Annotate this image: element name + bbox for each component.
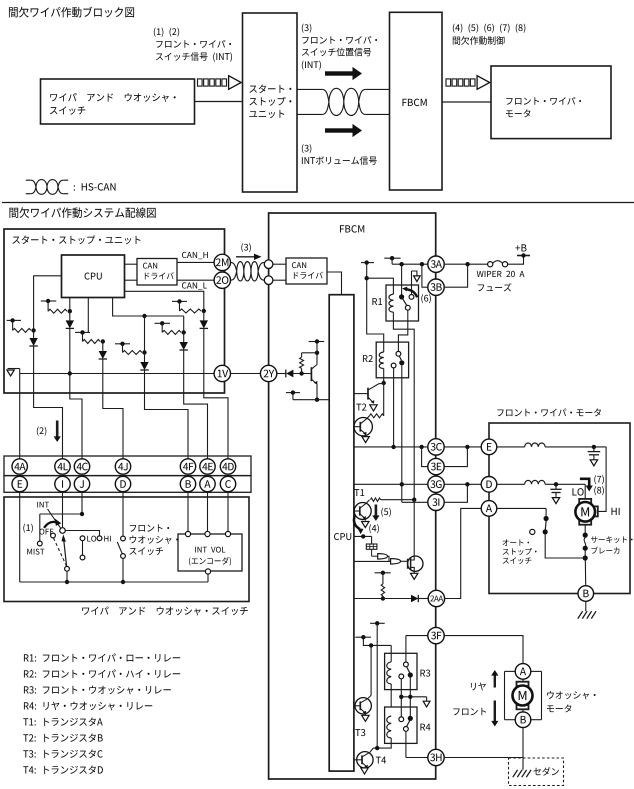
- label (2) with bold arrow: [54, 421, 61, 443]
- logic gate 1: [372, 549, 388, 559]
- wire rail to R2 coil: [367, 278, 384, 352]
- cell1 resistor: [13, 328, 31, 332]
- FBCM box: [269, 213, 436, 779]
- label INT with indicator line: [48, 509, 61, 528]
- wire FBCM to motor: [442, 101, 491, 103]
- wire 3I tie external: [444, 484, 467, 502]
- dashed signal arrow 2: [446, 76, 490, 90]
- wire fuse to +B: [508, 256, 524, 265]
- wire C column to INT VOL: [227, 492, 229, 532]
- signal label (3) INT volume signal: [0, 0, 1, 1]
- net label CAN_L: [0, 0, 1, 1]
- wire R4 common to 3H: [405, 731, 407, 757]
- cell6 stub: [155, 321, 171, 332]
- caption wiper and washer switch: [0, 0, 1, 1]
- connector D (switch side): [115, 476, 130, 491]
- wire LO feed: [584, 484, 586, 499]
- connector 3F: [428, 627, 444, 643]
- cell5 stub: [172, 299, 187, 311]
- connector 3E: [428, 458, 444, 474]
- label front with down arrow: [491, 701, 498, 727]
- label (1) with bold arc arrow: [44, 518, 61, 528]
- CAN pin circle H: [264, 260, 273, 269]
- wire CPU left pin to cell1: [34, 276, 62, 331]
- node 2Y input: [299, 371, 303, 375]
- pull-up resistor 2Y input: [300, 353, 304, 374]
- wire arm bottom to bus: [65, 571, 69, 584]
- wire R3 contacts to bus: [401, 678, 410, 718]
- cell6 node: [182, 316, 186, 335]
- connector 2O: [214, 272, 230, 288]
- cell3 node: [101, 339, 105, 343]
- power stub rail 2: [384, 256, 400, 264]
- T1 bold arc (4): [354, 516, 363, 535]
- resistor 2A line: [381, 584, 385, 601]
- connector J (switch side): [74, 476, 89, 491]
- transistor 2Y input: [311, 353, 319, 402]
- transistor Tx driver: [354, 418, 373, 437]
- wire washer switch to bus: [121, 558, 125, 584]
- wire 3C line: [354, 445, 428, 449]
- wire LO to lower contact: [82, 541, 84, 556]
- start-stop unit box (block): [243, 13, 298, 192]
- wire 3A feed line: [392, 262, 428, 266]
- CAN pin circle L: [264, 276, 273, 285]
- front wiper motor box (block): [491, 66, 611, 139]
- switch arm with arrowhead: [62, 534, 67, 566]
- connector A (switch side): [200, 476, 215, 491]
- HS-CAN twisted pair unit-FBCM: [297, 88, 390, 115]
- relay R1 coil: [389, 294, 393, 321]
- relay R4 coil: [387, 716, 391, 738]
- wire ground bus to connector 4A: [19, 374, 21, 459]
- label front wiper motor: [0, 0, 1, 1]
- power stub rail 1: [361, 260, 374, 280]
- cell5 node: [202, 309, 206, 313]
- wire CAN driver to CPU: [327, 272, 342, 295]
- wire E column to common bus: [19, 492, 21, 582]
- wire auto-stop to breaker junction: [545, 534, 583, 558]
- relay R2 coil: [379, 352, 383, 383]
- transistor T3: [354, 695, 372, 714]
- cell4 stub: [115, 342, 130, 353]
- title wiring diagram: [0, 0, 1, 1]
- node R2 coil low: [382, 381, 386, 385]
- connector E (switch side): [12, 476, 27, 491]
- FBCM box (block): [390, 12, 443, 190]
- connector 4F: [180, 459, 195, 474]
- connector I (switch side): [55, 476, 70, 491]
- contact LO: [80, 536, 85, 541]
- dashed signal arrow 1: [198, 76, 242, 90]
- cell4 node: [142, 316, 146, 355]
- relay R3 coil: [387, 662, 391, 707]
- ground bus wire to 1V: [20, 373, 214, 375]
- resistor T2-Tx: [366, 383, 384, 419]
- input diode at 2Y: [277, 370, 312, 378]
- switch common bus: [20, 581, 208, 583]
- wire gate1 to gate2: [387, 556, 390, 561]
- label washer motor: [0, 0, 1, 1]
- connector A (washer): [515, 664, 531, 680]
- T2 emitter ground marker: [370, 405, 377, 411]
- cell1 pull-up stub: [7, 318, 21, 330]
- connector 1V: [214, 365, 230, 381]
- relay R1 contacts: [399, 294, 414, 310]
- wire A column to INT VOL: [207, 492, 209, 532]
- connector 4L: [55, 459, 70, 474]
- label (3) with arrow: [236, 254, 262, 260]
- motor M (wiper): [575, 499, 597, 525]
- wire cell2 to connector 4C: [68, 328, 82, 458]
- connector 4C: [74, 459, 89, 474]
- wire R1 NO down to R2 common: [398, 310, 407, 351]
- wire R1 coil to node jog: [393, 321, 414, 500]
- wire to T3 collector: [370, 645, 372, 695]
- MOSFET driver: [401, 500, 423, 572]
- relay R4 box: [385, 707, 417, 743]
- connector B (switch side): [180, 476, 195, 491]
- cell6 diode: [180, 332, 188, 350]
- connector 4E: [200, 459, 215, 474]
- wire 1V to 2Y: [231, 373, 261, 375]
- cell3 stub: [75, 330, 90, 341]
- contact arm bottom: [65, 566, 70, 571]
- HS-CAN legend symbol: [26, 180, 68, 195]
- wire 3B tie: [422, 264, 428, 287]
- wire switch to unit: [195, 101, 243, 103]
- connector D (motor): [481, 477, 497, 493]
- diode 2A line: [411, 595, 418, 602]
- cell1 node: [31, 328, 35, 332]
- connector 3H: [428, 749, 444, 765]
- wire 3A to fuse: [444, 262, 487, 266]
- cell5 resistor: [180, 309, 202, 313]
- T3 emitter ground marker: [362, 713, 369, 721]
- +B terminal: [517, 253, 530, 257]
- connector 3C: [428, 439, 444, 455]
- wire 3F to washer A: [444, 636, 523, 664]
- wire R2 NC to 3C line: [393, 368, 395, 447]
- front wiper motor box: [489, 423, 630, 594]
- wire CPU bottom pin to cell2: [69, 298, 71, 312]
- connector C (switch side): [220, 476, 235, 491]
- label front washer switch: [0, 0, 1, 1]
- wire cell5 to connector 4D: [204, 328, 228, 458]
- pull-up stub 2Y: [302, 339, 325, 355]
- wire 3E tie external: [444, 447, 467, 467]
- wire cell4 to connector 4F: [145, 370, 189, 459]
- connector A (motor): [481, 501, 497, 517]
- solid arrow bottom: [325, 124, 362, 137]
- bold arrow (7)(8): [580, 479, 593, 492]
- INT VOL pin C: [225, 531, 230, 536]
- INT VOL pin B: [185, 531, 190, 536]
- wire rail to R1 coil: [367, 278, 394, 294]
- sedan ground box: [509, 758, 564, 786]
- wire J column to INT bar: [81, 492, 83, 514]
- connector 2AA: [428, 590, 444, 606]
- wire CAN driver to 2M 2O: [177, 262, 214, 280]
- wire D column to washer switch: [122, 492, 124, 537]
- stub at CPU 2Y input: [286, 390, 300, 399]
- motor M (washer): [513, 679, 533, 712]
- INT VOL bottom pin: [205, 569, 210, 574]
- wire to CPU left pin: [293, 399, 329, 401]
- connector 3A: [428, 256, 444, 272]
- cell2 diode: [66, 311, 74, 328]
- wire CPU bottom pin to cell3: [87, 298, 89, 333]
- Tx emitter ground marker: [362, 437, 369, 443]
- wire 3H external: [444, 757, 523, 759]
- wire 3G to D: [444, 482, 481, 486]
- wire R4 coil to T4: [373, 738, 391, 750]
- relay R3 box: [385, 653, 417, 689]
- connector E (motor): [481, 439, 497, 455]
- wire 3B loop to 3A line: [444, 264, 467, 287]
- connector B (motor): [578, 586, 594, 602]
- auto-stop switch feed: [497, 508, 546, 516]
- dashed arm OFF position: [54, 538, 67, 566]
- wire HI feed: [598, 447, 606, 512]
- wire to R1 common: [401, 264, 403, 297]
- wire breaker to B: [584, 558, 586, 586]
- cell2 pull-up stub: [41, 299, 57, 311]
- transistor T4: [354, 748, 373, 768]
- washer motor bracket: [505, 671, 542, 719]
- signal label (3) front wiper switch position signal INT: [0, 0, 1, 1]
- connector strip frame: [4, 456, 251, 492]
- capacitor to ground E line: [588, 447, 601, 466]
- connector 4A: [12, 459, 27, 474]
- contact OFF: [51, 533, 56, 538]
- cell6 resistor: [162, 330, 181, 334]
- connector 4D: [220, 459, 235, 474]
- switch pivot contact: [60, 528, 66, 534]
- T1 emitter ground marker (4): [362, 522, 369, 528]
- connector 4J: [115, 459, 130, 474]
- contact MIST: [37, 541, 42, 546]
- capacitor to ground D line: [550, 484, 561, 503]
- wiper and washer switch box (wiring): [4, 497, 249, 602]
- connector 3G: [428, 476, 444, 492]
- wire cell3 to connector 4J: [103, 359, 123, 459]
- washer switch contact bottom: [121, 554, 126, 559]
- legend R1-R4 T1-T4: [0, 0, 1, 1]
- T4 emitter ground marker: [361, 767, 368, 774]
- CAN driver (start-stop unit): [137, 259, 177, 286]
- R1 bold arc (6): [402, 287, 417, 298]
- pivot bar to HI: [65, 531, 99, 537]
- cell5 diode: [200, 311, 208, 328]
- wire cell6 to connector 4E: [184, 350, 208, 459]
- wire CPU encoder output: [354, 534, 372, 544]
- wire B column to INT VOL: [187, 492, 189, 532]
- connector 3B: [428, 279, 444, 295]
- connector 3I: [428, 494, 444, 510]
- wire 3G line: [354, 482, 428, 486]
- CAN driver (FBCM): [286, 258, 327, 284]
- relay R4 contacts: [399, 716, 413, 731]
- wire CPU to gate1: [354, 560, 391, 562]
- transistor T1: [354, 500, 371, 521]
- connector 2Y: [260, 365, 276, 381]
- wire 3C to E: [444, 445, 481, 449]
- solid arrow top: [325, 67, 362, 80]
- twisted pair 2M-2O to FBCM: [231, 262, 265, 281]
- contact LO lower: [80, 555, 85, 560]
- wire washer B to 3H line: [522, 728, 524, 758]
- ground symbol (start-stop unit): [7, 369, 20, 377]
- signal label (1)(2) front wiper switch signal INT: [0, 0, 1, 1]
- fuse WIPER 20A: [488, 261, 508, 267]
- wire CPU bottom pin jog to cell4 and cell6: [113, 298, 184, 319]
- wire 2A line: [354, 598, 428, 600]
- connector B (washer): [515, 712, 531, 728]
- wire 2AA to A: [445, 508, 482, 598]
- ground B (chassis): [578, 601, 596, 618]
- wire CAN pins to driver: [273, 264, 286, 280]
- circuit breaker: [583, 533, 588, 561]
- bold arrow (5): [372, 505, 379, 522]
- wire I column to pivot: [62, 492, 64, 528]
- net label CAN_H: [0, 0, 1, 1]
- cell3 diode: [99, 342, 107, 360]
- start-stop unit box: [4, 229, 225, 393]
- cell4 diode: [140, 353, 148, 371]
- power stub washer 1: [370, 621, 385, 748]
- wire 3E tie internal: [422, 447, 429, 467]
- power stub washer 2: [355, 635, 391, 648]
- wire cell1 to connector 4L: [34, 346, 63, 459]
- separator line: [2, 202, 634, 204]
- wire CPU to CAN driver: [125, 264, 138, 280]
- cell2 node: [68, 309, 72, 313]
- logic gate 2: [391, 559, 401, 564]
- CPU (start-stop unit): [62, 255, 125, 298]
- transistor T2: [354, 384, 384, 404]
- stub above resistor 2A: [375, 571, 391, 584]
- relay R2 box: [376, 342, 408, 378]
- wire INT VOL to bus: [207, 574, 209, 582]
- washer switch contact top: [121, 536, 126, 541]
- wire 3I line: [402, 501, 428, 503]
- resistor T1 collector: [371, 498, 417, 502]
- CPU (FBCM): [329, 295, 354, 771]
- wire to R3 coil: [390, 645, 392, 661]
- cell1 diode: [29, 330, 37, 346]
- encoder block: [366, 544, 377, 549]
- contact HI: [97, 536, 102, 541]
- INT VOL encoder box: [178, 534, 242, 571]
- MOSFET source ground marker: [411, 571, 418, 579]
- inductor E line: [497, 443, 606, 449]
- R1 NC to reference marker: [412, 271, 421, 295]
- inductor D line: [497, 480, 585, 486]
- label rear with up arrow: [491, 670, 498, 688]
- wiper and washer switch box: [41, 79, 195, 124]
- wire R2 NO to 3G and 3I lines: [401, 365, 403, 502]
- wire 3H line internal: [406, 757, 428, 759]
- washer switch arm: [117, 542, 122, 554]
- wire to sedan ground: [522, 758, 524, 770]
- cell5 feed from CPU right: [125, 291, 204, 311]
- wire 3F line internal: [406, 636, 428, 662]
- cell4 resistor: [123, 351, 143, 355]
- title block diagram: [0, 0, 1, 1]
- relay R3 contacts: [399, 662, 413, 679]
- auto-stop switch: [530, 516, 549, 535]
- cell2 resistor: [48, 309, 67, 313]
- wire motor to circuit breaker: [584, 525, 586, 535]
- bus with ground marker R3 R4: [399, 695, 430, 707]
- cell3 resistor: [83, 340, 101, 344]
- INT bar and MIST drop: [40, 512, 84, 541]
- control label (4)(5)(6)(7)(8) intermittent control: [0, 0, 1, 1]
- relay R1 box: [386, 285, 419, 321]
- INT VOL pin A: [205, 531, 210, 536]
- connector 2M: [214, 254, 230, 270]
- relay R2 contacts: [391, 351, 404, 368]
